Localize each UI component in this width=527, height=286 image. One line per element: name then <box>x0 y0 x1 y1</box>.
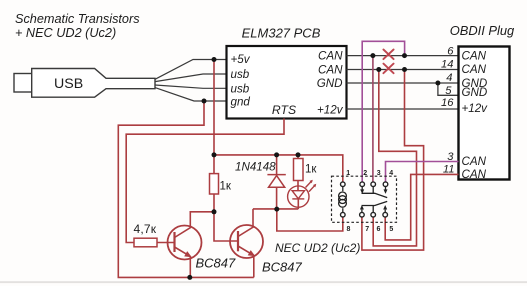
svg-text:OBDII Plug: OBDII Plug <box>450 23 515 38</box>
svg-text:USB: USB <box>54 76 83 92</box>
svg-text:RTS: RTS <box>272 103 296 117</box>
svg-text:1: 1 <box>346 170 350 177</box>
svg-text:4: 4 <box>446 72 452 84</box>
svg-text:2: 2 <box>363 170 367 177</box>
svg-text:+ NEC UD2 (Uc2): + NEC UD2 (Uc2) <box>15 26 116 40</box>
svg-text:CAN: CAN <box>462 155 487 168</box>
svg-text:NEC UD2 (Uc2): NEC UD2 (Uc2) <box>275 241 360 255</box>
svg-text:CAN: CAN <box>318 50 343 63</box>
svg-text:1к: 1к <box>220 181 232 193</box>
svg-text:16: 16 <box>441 97 454 109</box>
svg-text:CAN: CAN <box>462 49 487 62</box>
svg-text:BC847: BC847 <box>262 259 303 274</box>
svg-text:usb: usb <box>231 82 250 95</box>
svg-text:GND: GND <box>317 77 343 90</box>
svg-text:+12v: +12v <box>462 102 489 115</box>
svg-text:CAN: CAN <box>462 168 487 181</box>
svg-text:gnd: gnd <box>231 95 251 108</box>
svg-text:GND: GND <box>462 86 488 99</box>
svg-text:6: 6 <box>377 226 381 233</box>
svg-text:CAN: CAN <box>318 63 343 76</box>
svg-text:ELM327 PCB: ELM327 PCB <box>242 26 321 41</box>
svg-text:1к: 1к <box>305 163 317 175</box>
svg-text:4,7к: 4,7к <box>134 222 157 236</box>
svg-text:Schematic Transistors: Schematic Transistors <box>15 12 140 26</box>
svg-text:1N4148: 1N4148 <box>235 161 276 174</box>
svg-text:3: 3 <box>377 170 381 177</box>
svg-text:4: 4 <box>389 170 393 177</box>
svg-text:BC847: BC847 <box>196 255 237 270</box>
svg-text:8: 8 <box>347 226 351 233</box>
svg-text:5: 5 <box>389 226 393 233</box>
svg-text:7: 7 <box>365 226 369 233</box>
svg-text:usb: usb <box>231 68 250 81</box>
svg-text:CAN: CAN <box>462 63 487 76</box>
svg-text:6: 6 <box>447 46 454 58</box>
svg-text:14: 14 <box>441 58 453 70</box>
svg-text:+5v: +5v <box>231 53 251 66</box>
svg-text:+12v: +12v <box>317 103 344 116</box>
svg-text:5: 5 <box>445 85 452 97</box>
